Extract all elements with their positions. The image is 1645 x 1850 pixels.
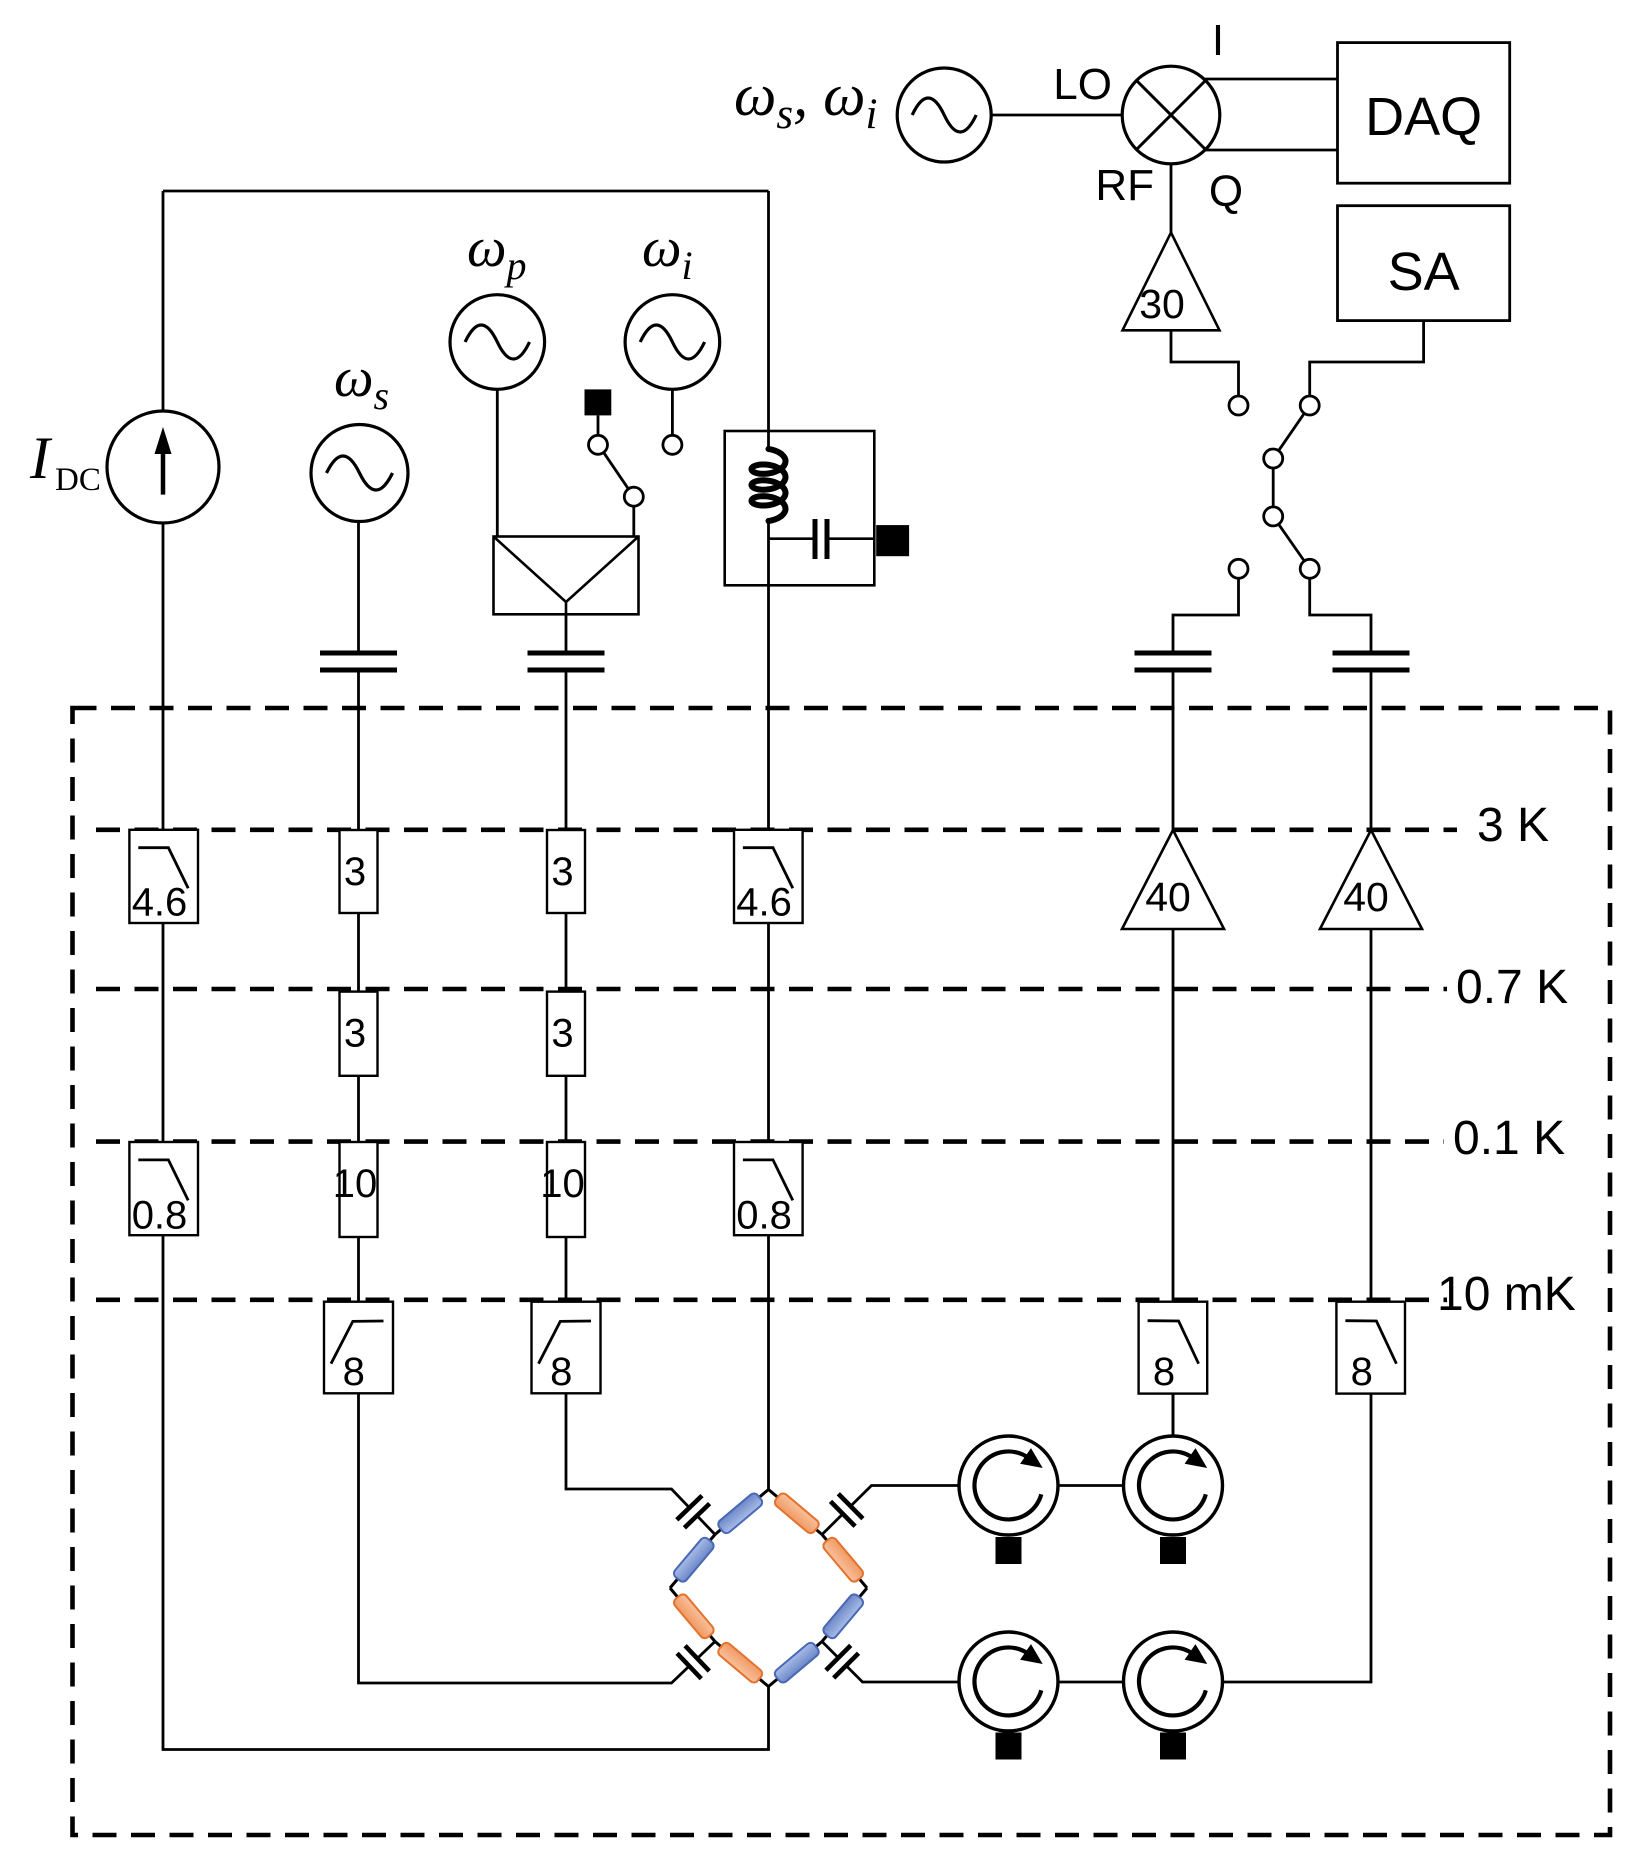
svg-text:4.6: 4.6 [132,881,188,925]
svg-text:SA: SA [1388,242,1460,302]
svg-text:10: 10 [540,1162,585,1206]
svg-text:0.8: 0.8 [132,1194,188,1238]
svg-text:0.1 K: 0.1 K [1453,1112,1565,1165]
svg-text:0.8: 0.8 [736,1194,792,1238]
svg-text:8: 8 [550,1350,572,1394]
svg-text:3: 3 [551,850,573,894]
svg-text:3: 3 [344,850,366,894]
svg-text:ωs, ωi: ωs, ωi [734,62,877,138]
svg-text:DAQ: DAQ [1365,87,1482,147]
svg-text:8: 8 [1153,1350,1175,1394]
svg-text:40: 40 [1145,874,1191,920]
svg-text:10 mK: 10 mK [1437,1268,1576,1321]
svg-text:3 K: 3 K [1477,799,1549,852]
svg-text:4.6: 4.6 [736,881,792,925]
svg-text:Q: Q [1209,167,1243,216]
svg-text:3: 3 [344,1012,366,1056]
svg-text:3: 3 [551,1012,573,1056]
svg-text:40: 40 [1343,874,1389,920]
svg-text:8: 8 [343,1350,365,1394]
svg-text:0.7 K: 0.7 K [1456,961,1568,1014]
svg-text:DC: DC [55,462,101,498]
svg-text:30: 30 [1139,281,1185,327]
svg-text:RF: RF [1095,161,1154,210]
svg-text:I: I [1212,16,1224,65]
svg-text:10: 10 [333,1162,378,1206]
svg-text:LO: LO [1053,60,1112,109]
svg-text:I: I [29,425,53,491]
svg-text:8: 8 [1351,1350,1373,1394]
